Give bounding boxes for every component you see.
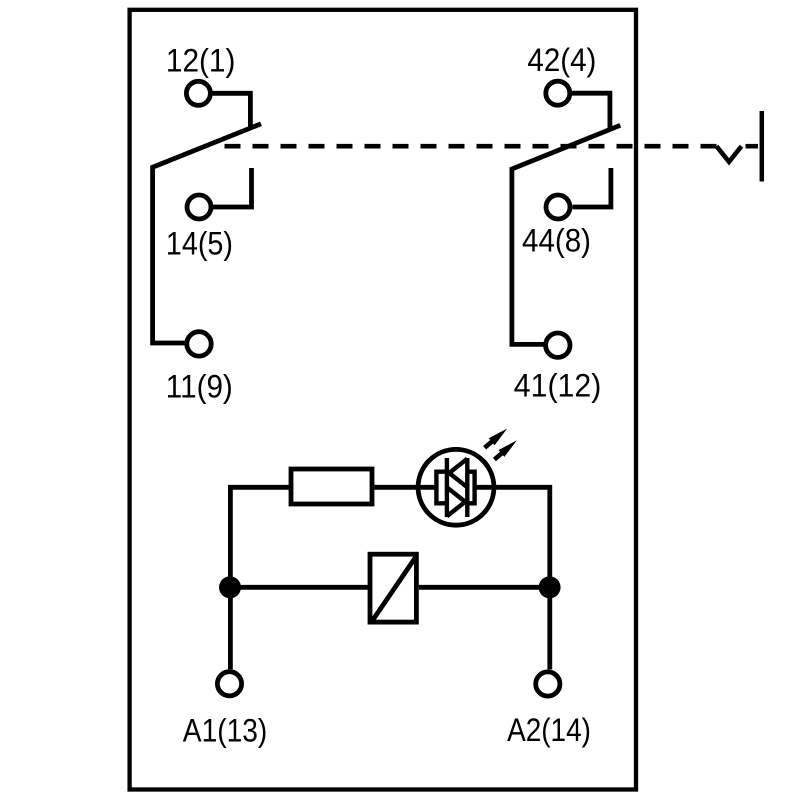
svg-text:A2(14): A2(14) (507, 712, 591, 748)
svg-text:A1(13): A1(13) (183, 712, 267, 748)
svg-text:44(8): 44(8) (522, 223, 591, 259)
svg-text:14(5): 14(5) (166, 225, 233, 261)
svg-text:41(12): 41(12) (514, 368, 602, 404)
svg-text:12(1): 12(1) (166, 42, 236, 78)
svg-text:11(9): 11(9) (166, 368, 233, 404)
svg-text:42(4): 42(4) (527, 42, 596, 78)
